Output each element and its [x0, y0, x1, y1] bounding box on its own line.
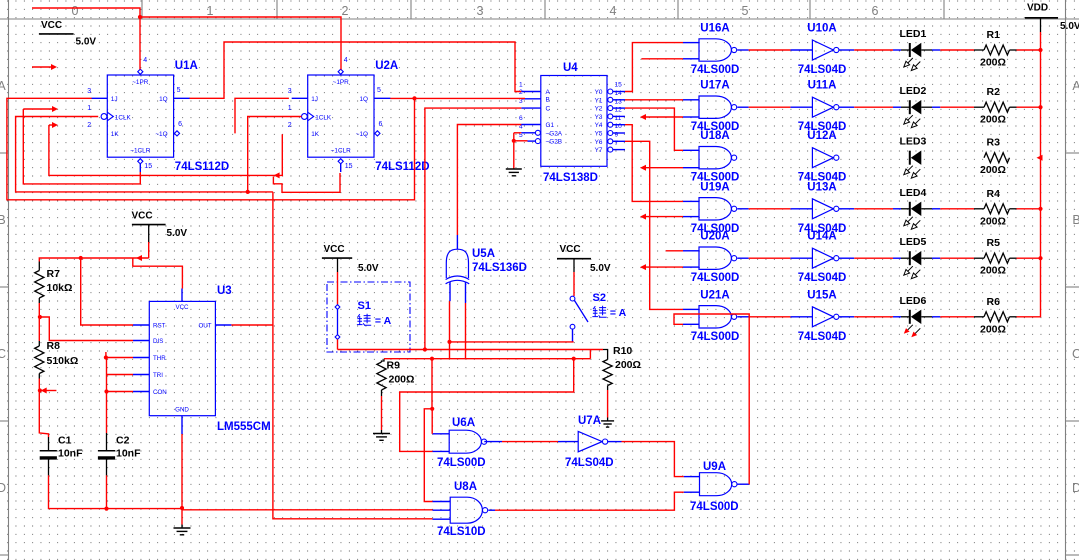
arrow wire to U19A input 2	[640, 214, 646, 220]
U3 TRI stub	[133, 374, 149, 376]
svg-text:A: A	[546, 89, 551, 96]
junction CON	[104, 389, 108, 393]
svg-text:U20A: U20A	[700, 231, 729, 243]
svg-text:1J: 1J	[111, 96, 118, 103]
svg-text:U3: U3	[217, 285, 232, 297]
arrow wire to U20A input 2	[640, 264, 646, 270]
S1 wire to rail (red)	[337, 339, 339, 349]
U6A input stubs	[433, 433, 450, 435]
wire U4 Y0 to U16A input 1	[625, 43, 683, 92]
svg-text:200Ω: 200Ω	[980, 323, 1006, 335]
U4 input A stub	[521, 91, 541, 93]
junction return rail at S2 branch	[572, 357, 576, 361]
svg-text:15: 15	[615, 82, 623, 89]
wire U8A output to U9A input 2	[488, 509, 495, 511]
junction on VDD bus row 2	[1038, 105, 1042, 109]
XOR gate U5A 74LS136D (pointing up)	[446, 249, 468, 278]
svg-text:LED1: LED1	[900, 28, 927, 40]
capacitor C1	[40, 450, 57, 452]
U5A output stub	[456, 235, 458, 249]
S2 lead to wire (blue)	[572, 329, 574, 342]
svg-text:S2: S2	[593, 292, 606, 304]
svg-text:74LS04D: 74LS04D	[798, 64, 847, 76]
wire U20A output to U14A input	[737, 257, 748, 259]
svg-text:74LS04D: 74LS04D	[798, 331, 847, 343]
NAND gate U16A 74LS00D	[699, 39, 731, 61]
U1A pin 3 1J stub	[91, 97, 107, 99]
svg-text:Y6: Y6	[595, 139, 603, 146]
S1 switch terminals and lever	[337, 307, 339, 337]
junction R7 bottom	[38, 315, 42, 319]
svg-text:10kΩ: 10kΩ	[47, 282, 73, 294]
svg-text:0: 0	[72, 4, 79, 18]
svg-text:2: 2	[288, 122, 292, 129]
svg-text:15: 15	[345, 163, 353, 170]
svg-text:74LS10D: 74LS10D	[437, 526, 486, 538]
wire U16A input 2 (dangling)	[641, 58, 683, 60]
U8A input stubs	[433, 501, 451, 503]
LED2	[901, 106, 909, 108]
svg-text:1K: 1K	[311, 131, 320, 138]
svg-text:R5: R5	[987, 237, 1001, 249]
R10 bottom lead	[607, 386, 609, 391]
svg-text:B: B	[546, 96, 550, 103]
R9 bottom lead	[381, 390, 383, 396]
NAND gate U18A 74LS00D	[699, 147, 731, 169]
LED4	[901, 208, 909, 210]
resistor R9 (vertical)	[377, 362, 386, 390]
svg-text:200Ω: 200Ω	[615, 359, 641, 371]
svg-text:VDD: VDD	[1027, 3, 1048, 14]
svg-text:R2: R2	[987, 86, 1001, 98]
junction U6A/U8A branch	[430, 407, 434, 411]
resistor R1	[984, 45, 1010, 55]
svg-text:10nF: 10nF	[116, 448, 141, 460]
inverter U10A 74LS04D	[812, 40, 833, 60]
U2A pin 5 1Q stub	[374, 97, 391, 99]
U11A input stub	[790, 106, 812, 108]
svg-text:5: 5	[177, 87, 181, 94]
U2A pin 1 1CLK bubble	[302, 114, 308, 120]
NAND gate U9A 74LS00D	[700, 473, 732, 496]
svg-text:Y5: Y5	[595, 131, 603, 138]
svg-text:U13A: U13A	[807, 181, 836, 193]
wire U11A output to LED2	[839, 106, 854, 108]
junction C2 bottom	[104, 507, 108, 511]
U4 output Y6 bubble and stub	[608, 139, 613, 144]
wire LED1 to R1	[921, 49, 932, 51]
wire U2A ~1CLR loop	[273, 173, 340, 192]
dangling arrow wire top-left	[32, 66, 53, 68]
svg-text:74LS00D: 74LS00D	[437, 457, 486, 469]
arrow wire to U17A input 2	[640, 114, 646, 120]
svg-text:GND: GND	[175, 407, 189, 414]
svg-text:~1CLR: ~1CLR	[331, 148, 351, 155]
U4 output Y2 bubble and stub	[608, 106, 613, 111]
R10 top lead	[603, 350, 608, 360]
wire U21A output to U15A input	[737, 316, 748, 318]
R9 top lead	[382, 359, 385, 362]
svg-text:74LS04D: 74LS04D	[798, 272, 847, 284]
S2 wire from VCC (red)	[573, 272, 575, 296]
wire R7/R8 junction to U3 DIS	[40, 317, 133, 341]
wire ground rail to U8A input 2	[182, 509, 433, 511]
svg-text:CON: CON	[153, 389, 167, 396]
resistor R7 (vertical)	[35, 271, 44, 299]
svg-text:3: 3	[87, 88, 91, 95]
U4 ~G2A bubble and stub	[535, 130, 540, 135]
svg-text:Y7: Y7	[595, 147, 603, 154]
U3 GND bottom stub	[181, 416, 183, 434]
wire S2 to U5A input	[450, 341, 574, 343]
wire to U1A pin 4	[139, 17, 141, 70]
svg-text:3: 3	[519, 98, 523, 105]
wire G2B junction	[512, 139, 516, 143]
svg-text:S1: S1	[358, 300, 371, 312]
U3 CON stub	[133, 391, 149, 393]
svg-text:U16A: U16A	[700, 23, 729, 35]
svg-text:1J: 1J	[311, 96, 318, 103]
svg-text:OUT: OUT	[198, 323, 211, 330]
wire U4 Y1 to U17A input 1	[625, 99, 683, 101]
wire U9A output to U21A input 2	[674, 314, 749, 484]
wire S1 branch to U6A/U8A inputs	[431, 359, 433, 409]
svg-text:2: 2	[519, 89, 523, 96]
svg-text:~1PR: ~1PR	[132, 79, 149, 86]
svg-text:7: 7	[615, 140, 619, 147]
U4 output Y1 bubble and stub	[608, 97, 613, 102]
svg-text:RST: RST	[153, 323, 166, 330]
wire U4 Y4 to U19A input 1	[625, 125, 683, 202]
svg-text:LM555CM: LM555CM	[217, 421, 271, 433]
junction U2A 1Q feedback	[412, 96, 416, 100]
wire U1A CLK net	[16, 117, 273, 192]
svg-text:1: 1	[288, 105, 292, 112]
svg-text:1CLK: 1CLK	[315, 114, 332, 121]
svg-text:~1CLR: ~1CLR	[130, 148, 150, 155]
wire VCC jog down to U3 VCC pin	[133, 258, 183, 289]
svg-text:1Q: 1Q	[359, 96, 368, 103]
svg-text:1: 1	[87, 105, 91, 112]
svg-text:5.0V: 5.0V	[358, 263, 379, 274]
decoder U4 74LS138D body	[541, 76, 607, 167]
svg-text:11: 11	[615, 115, 622, 122]
ground under R9	[381, 396, 383, 430]
svg-text:= A: = A	[607, 307, 627, 319]
svg-text:13: 13	[615, 98, 623, 105]
svg-text:C2: C2	[116, 435, 130, 447]
LED1	[901, 49, 909, 51]
svg-text:LED4: LED4	[900, 187, 927, 199]
svg-text:B: B	[1072, 213, 1079, 227]
wire U4 Y2 to U18A input 1	[625, 108, 683, 150]
U4 input B stub	[521, 98, 541, 100]
wire R8 bottom region	[38, 379, 40, 391]
wire U5A output to U4 G1	[457, 125, 521, 236]
svg-text:A: A	[1072, 79, 1079, 93]
svg-text:510kΩ: 510kΩ	[47, 355, 79, 367]
svg-text:Y3: Y3	[595, 114, 603, 121]
svg-text:6: 6	[519, 115, 523, 122]
svg-text:VCC: VCC	[324, 244, 345, 255]
NAND gate U21A 74LS00D	[699, 306, 731, 328]
U9A output stub	[737, 483, 749, 485]
svg-text:C: C	[546, 106, 551, 113]
ground under U3	[181, 508, 183, 525]
inverter U12A 74LS04D	[812, 148, 833, 168]
wire R5 to VDD bus	[1010, 257, 1017, 259]
dangling arrow at R8 bottom	[41, 388, 47, 394]
NAND gate U17A 74LS00D	[699, 96, 731, 118]
svg-text:U7A: U7A	[578, 415, 601, 427]
svg-text:R9: R9	[387, 360, 401, 372]
wire U2A 1J	[235, 98, 289, 133]
wire LED5 to R5	[921, 257, 932, 259]
U2A pin 4 ~1PR bubble	[338, 69, 343, 74]
inverter U7A 74LS04D	[578, 431, 602, 451]
resistor R3	[984, 153, 1010, 163]
svg-text:DIS: DIS	[153, 338, 163, 345]
U3 VCC top stub	[181, 289, 183, 302]
U4 ~G2B bubble and stub	[535, 139, 540, 144]
svg-text:5: 5	[377, 87, 381, 94]
U15A input stub	[790, 316, 812, 318]
svg-text:74LS00D: 74LS00D	[690, 501, 739, 513]
wire branch to U8A input 1	[424, 409, 432, 502]
wire U20A input 1 (dangling)	[666, 250, 683, 252]
junction on VDD bus row 1	[1038, 48, 1042, 52]
U4 output Y3 bubble and stub	[608, 114, 613, 119]
svg-text:Y0: Y0	[595, 89, 603, 96]
svg-text:VCC: VCC	[560, 244, 581, 255]
U4 input C stub	[521, 107, 541, 109]
wire U4 Y6 to U21A input 1	[625, 141, 683, 309]
svg-text:LED5: LED5	[900, 236, 927, 248]
svg-text:~1Q: ~1Q	[356, 131, 368, 138]
wire U19A output to U13A input	[737, 208, 748, 210]
svg-text:R3: R3	[987, 137, 1001, 149]
svg-text:R6: R6	[987, 296, 1001, 308]
LED5	[901, 257, 909, 259]
VDD bus wire	[1040, 32, 1042, 317]
wire U2A 1Q down to 1J feedback rail	[7, 98, 415, 200]
wire U1A 1Q to U4 A input	[190, 42, 522, 98]
svg-text:U21A: U21A	[700, 289, 729, 301]
wire S2 branch to U6A input 2	[400, 359, 574, 452]
wire TRI to U3	[107, 374, 134, 376]
JK flip-flop U2A 74LS112D body	[308, 75, 374, 157]
inverter U15A 74LS04D	[812, 307, 833, 327]
junction S1 rail to U4 C	[423, 347, 427, 351]
inverter U11A 74LS04D	[812, 97, 833, 117]
U3 DIS stub	[133, 340, 149, 342]
U7A input stub	[562, 441, 579, 443]
resistor R5	[984, 253, 1010, 263]
resistor R6	[984, 312, 1010, 322]
U14A input stub	[790, 257, 812, 259]
svg-text:U14A: U14A	[807, 231, 836, 243]
wire C2 bottom lead	[106, 475, 108, 508]
U18A input stubs	[683, 149, 699, 151]
svg-text:U8A: U8A	[454, 481, 477, 493]
NAND gate U19A 74LS00D	[699, 198, 731, 220]
svg-text:4: 4	[344, 57, 348, 64]
U1A pin 15 lead	[139, 164, 141, 172]
svg-text:VCC: VCC	[41, 20, 62, 31]
U3 RST stub	[133, 324, 149, 326]
U20A input stubs	[683, 250, 699, 252]
junction return rail at U6A branch	[430, 357, 434, 361]
U17A input stubs	[683, 99, 699, 101]
svg-text:3: 3	[477, 4, 484, 18]
svg-text:U12A: U12A	[807, 130, 836, 142]
ground under R10	[607, 390, 609, 418]
C2 leads	[106, 433, 108, 451]
svg-text:2: 2	[342, 4, 349, 18]
svg-text:VCC: VCC	[132, 211, 153, 222]
junction CLK net	[246, 190, 250, 194]
svg-text:200Ω: 200Ω	[980, 57, 1006, 69]
wire U15A output to LED6	[839, 316, 854, 318]
svg-text:U15A: U15A	[807, 289, 836, 301]
S2 key label (Key = A)	[592, 306, 606, 318]
U4 output Y0 bubble and stub	[608, 89, 613, 94]
wire rail down to U3 RST	[81, 258, 133, 325]
wire R6 to VDD bus	[1010, 316, 1017, 318]
wire VCC rail top-left	[32, 8, 140, 17]
svg-text:5: 5	[742, 4, 749, 18]
top ruler ticks	[141, 0, 143, 19]
arrow on VCC-R7 wire	[136, 255, 142, 261]
NAND gate U8A 74LS10D (3-input)	[450, 497, 482, 523]
wire U14A output to LED5	[839, 257, 854, 259]
junction U3 GND	[180, 506, 184, 510]
svg-text:U1A: U1A	[175, 60, 198, 72]
wire U2A 1Q to U4 B input	[390, 97, 525, 99]
U1A pin 1 1CLK bubble	[101, 114, 107, 120]
sheet border frame (top ruler line)	[0, 18, 1079, 20]
svg-text:200Ω: 200Ω	[980, 265, 1006, 277]
NAND gate U6A 74LS00D	[449, 430, 481, 453]
svg-text:~1Q: ~1Q	[155, 131, 167, 138]
svg-text:U10A: U10A	[807, 23, 836, 35]
svg-text:200Ω: 200Ω	[980, 114, 1006, 126]
svg-text:U19A: U19A	[700, 181, 729, 193]
U4 output Y7 bubble and stub	[608, 147, 613, 152]
svg-text:74LS112D: 74LS112D	[175, 161, 229, 173]
svg-text:2: 2	[87, 122, 91, 129]
svg-text:4: 4	[143, 57, 147, 64]
svg-text:A: A	[0, 79, 6, 93]
svg-text:LED2: LED2	[900, 85, 927, 97]
junction R8 bottom	[38, 388, 42, 392]
svg-text:TRI: TRI	[153, 372, 163, 379]
wire U2A 1K feedback rail	[49, 125, 282, 175]
svg-text:14: 14	[615, 90, 623, 97]
svg-text:LED6: LED6	[900, 295, 927, 307]
wire U7A output to U9A input 1	[607, 441, 621, 443]
U2A pin 3 1J stub	[292, 97, 308, 99]
svg-text:B: B	[0, 213, 6, 227]
wire R4 to VDD bus	[1010, 208, 1017, 210]
wire tie down to C2	[106, 358, 108, 434]
dangling bus arrow at row 3	[1037, 155, 1043, 161]
svg-text:10: 10	[615, 123, 623, 130]
svg-text:200Ω: 200Ω	[980, 215, 1006, 227]
wire LED6 to R6	[921, 316, 932, 318]
wire U17A output to U11A input	[737, 106, 748, 108]
wire CLK net down to U8A input 3	[273, 192, 433, 519]
wire U5A left input down	[449, 301, 451, 359]
dangling arrow at U1A CLK row	[23, 108, 54, 110]
svg-text:R8: R8	[47, 340, 61, 352]
svg-text:VCC: VCC	[175, 304, 189, 311]
arrow wire to U18A input 2	[640, 165, 646, 171]
svg-text:200Ω: 200Ω	[389, 374, 415, 386]
wire LED2 to R2	[921, 106, 932, 108]
wire LED4 to R4	[921, 208, 932, 210]
wire U3 OUT to CLK net	[231, 324, 273, 326]
U1A pin 15 ~1CLR bubble	[138, 159, 143, 164]
ground near U4 (G2B)	[513, 141, 515, 169]
svg-text:1: 1	[207, 4, 214, 18]
wire U6A output to U7A input	[484, 441, 502, 443]
svg-text:Y4: Y4	[595, 122, 603, 129]
svg-text:74LS00D: 74LS00D	[691, 331, 740, 343]
resistor R2	[984, 102, 1010, 112]
svg-text:U9A: U9A	[703, 461, 726, 473]
svg-text:6: 6	[872, 4, 879, 18]
U10A input stub	[790, 49, 812, 51]
svg-text:5.0V: 5.0V	[590, 263, 611, 274]
svg-text:THR: THR	[153, 355, 166, 362]
wire branch to U6A input 1	[431, 409, 433, 434]
svg-text:U11A: U11A	[808, 80, 837, 92]
U1A pin 4 ~1PR bubble	[138, 69, 143, 74]
wire U16A output to U10A input	[737, 49, 748, 51]
wire to U2A CLK	[248, 117, 302, 192]
svg-text:1: 1	[519, 82, 523, 89]
wire S1 rail to R10	[338, 349, 604, 351]
svg-text:1CLK: 1CLK	[115, 114, 132, 121]
side ruler ticks	[0, 152, 9, 154]
resistor R4	[984, 204, 1010, 214]
capacitor C2	[98, 450, 115, 452]
junction on VDD bus row 4	[1038, 207, 1042, 211]
wire R7 to R8	[38, 303, 40, 341]
junction R7 top rail	[79, 256, 83, 260]
U1A pin 5 1Q stub	[174, 97, 191, 99]
inverter U13A 74LS04D	[812, 199, 833, 219]
U13A input stub	[790, 208, 812, 210]
timer U3 LM555CM body	[149, 301, 215, 415]
inverter U14A 74LS04D	[812, 248, 833, 268]
svg-text:10nF: 10nF	[58, 448, 83, 460]
junction U5A input and S2	[447, 340, 451, 344]
wire R8 bottom to C1	[39, 391, 48, 438]
svg-text:74LS138D: 74LS138D	[543, 172, 598, 184]
wire return rail (to R9)	[384, 358, 590, 360]
wire THR TRI CON C2 tie	[105, 352, 107, 358]
resistor R10 (vertical)	[603, 360, 612, 386]
R8 leads	[38, 341, 40, 346]
svg-text:U5A: U5A	[472, 248, 495, 260]
svg-text:12: 12	[615, 107, 623, 114]
svg-text:15: 15	[144, 163, 152, 170]
wire R2 to VDD bus	[1010, 106, 1017, 108]
U3 THR stub	[133, 357, 149, 359]
U1A pin 6 ~1Q bubble	[174, 131, 179, 136]
